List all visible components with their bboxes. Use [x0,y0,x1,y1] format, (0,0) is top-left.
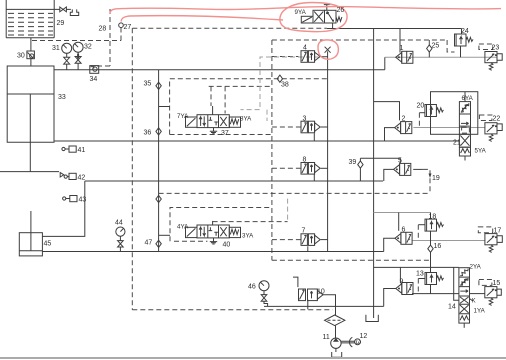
shutoff valve at tank top [54,7,71,12]
dashed pilot valve40 top y221.6 [213,221,288,223]
wire valve4 out [320,56,327,58]
pump drain cup [332,352,342,357]
svg-text:7YA: 7YA [177,113,189,120]
svg-text:28: 28 [99,26,107,33]
test point 43 [63,196,77,202]
wire 25 stub [428,52,430,57]
gray page border bottom [0,357,506,359]
K arrow at 14 [470,299,473,301]
svg-text:29: 29 [57,20,65,27]
arrow 19 [429,174,432,179]
svg-text:3: 3 [303,116,307,123]
svg-text:32: 32 [84,44,92,51]
dashed pilot bus x271.9 [271,40,273,260]
orifice diamond 35 [156,82,161,89]
orifice diamond mid [156,195,161,202]
wire valve6 elbow [384,238,395,251]
wire 30 to pump case [30,59,32,66]
wire valve9 out row y293.6 [412,293,459,295]
left line y171.6 [0,171,59,173]
gauge 32 [73,42,83,69]
red annotation lower wire [121,16,283,22]
main line y141 [54,140,459,142]
wire 14 left feed path [454,267,459,300]
wire column x430.5 segments [430,213,432,294]
check valve 5 [394,163,411,175]
top line y28.5 [327,28,462,30]
check valve 3 [301,121,320,133]
svg-text:38: 38 [281,82,289,89]
wire row valve9 supply y267.4 [374,266,459,268]
solenoid valve 26 [301,10,342,23]
wire row valve2 supply y101.6 [374,102,400,121]
svg-text:16: 16 [434,243,442,250]
po check 15 [479,280,501,306]
dashed frame top y28.3 [132,27,326,29]
check valve 9 [396,283,413,295]
svg-text:8: 8 [303,157,307,164]
svg-text:44: 44 [115,220,123,227]
svg-text:4YA: 4YA [177,224,189,231]
svg-text:8YA: 8YA [240,116,252,123]
dashed frame bottom y309.7 [132,309,332,311]
tank return line y251.5 [42,251,383,253]
svg-text:39: 39 [349,159,357,166]
wire valve10 bottom stub [307,300,309,310]
dashed 34 link [97,65,110,67]
pump group case 33 [7,66,54,142]
wire valve3 out [321,126,328,128]
breather plug [70,9,78,15]
wire valve7 bottom stub [307,246,309,251]
svg-text:13: 13 [416,271,424,278]
coupling arc [349,337,352,347]
po check 17 [478,227,502,253]
main vertical node P1 x327.6 [327,51,329,251]
dashed subframe 37 [209,86,272,113]
svg-text:21: 21 [453,140,461,147]
wire valve9 drop [399,267,401,283]
orifice diamond 36 [156,128,161,135]
check valve 1 [396,51,413,63]
vertical line x158.6 [158,70,160,252]
orifice diamond 25 [427,45,432,52]
relief valve 18 [425,219,444,231]
wire case center down [29,142,31,171]
pilot line valve 20 [419,112,425,114]
svg-text:36: 36 [144,130,152,137]
red ellipse around valve 26 [280,3,347,32]
svg-text:47: 47 [145,240,153,247]
svg-text:15: 15 [493,280,501,287]
svg-text:4: 4 [303,45,307,52]
dashed 24 pilot drop x447.1 [447,40,454,52]
circle 27 [119,23,124,28]
wire valve8 bottom stub [313,175,315,182]
svg-text:35: 35 [144,81,152,88]
svg-text:24: 24 [461,28,469,35]
gray dashed pilot polyline [241,57,328,110]
wire valve6 drop [398,213,400,231]
solenoid valve 37 [186,115,241,128]
gauge 46 [259,281,269,307]
dashed branch to valve8 [272,167,302,169]
svg-text:34: 34 [90,76,98,83]
block rect 20/21 [431,92,478,135]
svg-text:9: 9 [400,279,404,286]
svg-text:10: 10 [317,289,325,296]
test point 41 [62,146,76,152]
wire valve3 bottom stub [313,133,315,141]
relief valve 13 [425,273,444,285]
svg-text:6YA: 6YA [462,95,474,102]
wire 39 to valve5 supply y158.3 [360,158,400,163]
svg-text:23: 23 [492,45,500,52]
wire valve26 top stub with tick [324,5,330,11]
pump 11 [331,338,341,352]
svg-text:1: 1 [400,45,404,52]
gauge 44 [116,227,125,252]
svg-text:6: 6 [402,227,406,234]
valve 20 bottom stub [430,92,432,128]
orifice diamond 47 [156,240,161,247]
check valve 8 [301,163,320,175]
wire valve7 out [321,239,328,241]
filter diamond [325,315,345,326]
svg-text:ω: ω [356,339,362,346]
dashed drain line y193.4 [159,192,430,194]
wire valve14 to 15 y293.6 [470,293,485,295]
reservoir 29 [6,0,54,38]
check valve 10 [299,289,324,301]
check valve 4 [301,51,320,63]
svg-text:9YA: 9YA [295,9,307,16]
node X mark top of P1 [325,47,331,53]
orifice diamond 16 [428,245,433,252]
wire valve9 elbow [384,289,396,307]
dashed branch to valve4 [272,56,299,58]
svg-text:19: 19 [432,175,440,182]
svg-text:25: 25 [432,43,440,50]
motor 12 [355,339,362,346]
relief valve 24 [455,34,474,46]
red blob around X node [318,40,338,59]
coupler box 34 [90,66,99,74]
tank cup at P2 bottom [366,315,378,322]
wire 24 bottom stub [460,46,462,57]
dashed frame 40 left+top+bottom [170,208,272,242]
svg-text:7: 7 [302,228,306,235]
wire valve10 top L stub [293,277,298,287]
wire valve5 right stub [413,168,423,170]
svg-text:30: 30 [17,53,25,60]
dashed frame 37 left+top+bottom [170,79,328,135]
wire gray row y240.5 valve6 to 17 [413,240,485,242]
po check 22 [479,115,502,142]
valve 37 top stub [212,106,214,115]
motor 12 shaft [341,341,355,343]
svg-text:26: 26 [337,7,345,14]
return line y306.4 [264,305,384,307]
wire valve10 out to filter [323,295,336,315]
svg-text:45: 45 [44,241,52,248]
svg-text:14: 14 [448,304,456,311]
stack valve 14 [459,268,470,328]
dashed frame left edge x132.3 [131,28,133,309]
filter box 30 [27,51,35,59]
dashed 28 line x110 [109,9,111,66]
svg-text:40: 40 [223,242,231,249]
svg-text:17: 17 [494,228,502,235]
wire valve1 top drop [399,29,401,53]
wire gray row y127.5 valve2 to 22 [413,127,485,129]
valve 40 top stub [212,221,214,225]
wire gray row y57.3 through valve 1 [385,56,497,58]
svg-text:43: 43 [79,197,87,204]
svg-text:5: 5 [398,158,402,165]
valve 40 drain [210,238,217,244]
main vertical node P2 x373.6 [373,29,375,319]
svg-text:20: 20 [417,103,425,110]
svg-text:2: 2 [402,116,406,123]
orifice diamond 38 [277,75,282,82]
wire valve26 bottom stub [332,23,334,29]
check valve 6 [395,232,412,244]
wire valve5 elbow [384,169,394,181]
svg-text:37: 37 [221,130,229,137]
check valve 2 [395,122,412,134]
solenoid valve 40 [186,225,241,238]
svg-text:3YA: 3YA [242,233,254,240]
wire 24 top stub [461,29,463,35]
dashed tank drain y40.5 [32,40,121,42]
svg-text:27: 27 [124,24,132,31]
svg-text:1YA: 1YA [474,308,486,315]
wire valve2 elbow [385,128,395,141]
dashed valve5 drain elbow with arrow 19 [423,169,430,193]
svg-text:12: 12 [360,333,368,340]
svg-text:22: 22 [493,116,501,123]
svg-text:41: 41 [78,147,86,154]
relief valve 20 [425,105,444,117]
wire valve8 out [321,167,328,169]
dashed 27 stub [120,28,122,41]
svg-text:33: 33 [58,94,66,101]
wire valve1 elbow [384,57,386,69]
pilot line valve 13 [418,278,425,280]
orifice diamond 39 [358,161,363,168]
valve 37 drain [210,128,217,134]
wire filter to pump [335,326,337,338]
po check 23 [479,44,502,70]
svg-text:5YA: 5YA [475,148,487,155]
svg-text:31: 31 [52,45,60,52]
svg-text:11: 11 [323,334,330,341]
red annotation upper wire [110,7,501,14]
dashed branch to valve7 [272,239,302,241]
wire tank to filter30 [30,38,32,51]
oil tank 45 [19,211,42,256]
dashed bottom rail y260.2 [272,259,431,261]
svg-text:42: 42 [78,175,86,182]
tick to frame37 [159,106,170,108]
dashed pilot rail y40 [272,39,447,41]
dashed branch to valve3 [272,126,302,128]
pilot line valve 18 [418,224,425,226]
tick to frame40 [159,234,170,236]
wire row valve6 supply y212.5 [374,212,431,214]
wire 39 stubs [359,158,361,181]
svg-text:46: 46 [248,284,256,291]
gauge 31 [62,43,72,69]
main pressure line y69.7 [54,69,385,71]
main line y181 [85,180,383,182]
dashed 25 pilot stub [428,40,430,45]
test point 42 [60,173,76,180]
stack valve 21 [459,92,470,161]
svg-text:18: 18 [429,214,437,221]
wire tank45 feed Z [42,181,84,236]
svg-text:2YA: 2YA [470,264,482,271]
check valve 7 [301,234,320,246]
